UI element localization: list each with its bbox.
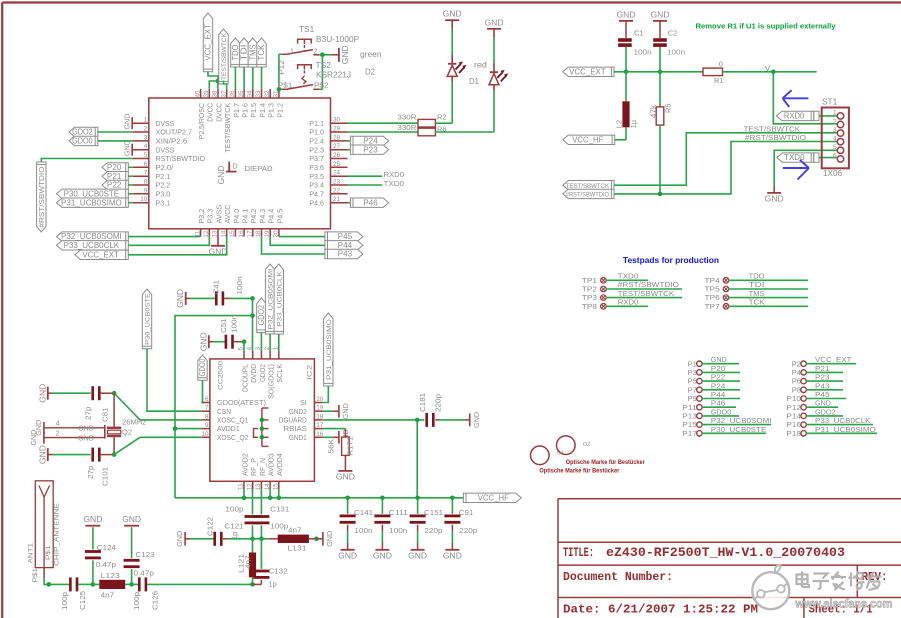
connector pin P3 net P20 xyxy=(688,364,740,377)
net flag VCC_EXT vertical above IC1 xyxy=(203,13,212,72)
ic IC1 MSP430 body xyxy=(149,98,331,229)
svg-text:4n7: 4n7 xyxy=(288,526,302,535)
svg-text:34: 34 xyxy=(247,90,254,98)
svg-text:www.elecfans.com: www.elecfans.com xyxy=(794,597,892,611)
capacitor C51 100n xyxy=(209,315,244,349)
svg-text:P18: P18 xyxy=(786,429,801,438)
wire P1.2 net from pin 31 xyxy=(277,54,286,89)
net flag TDO xyxy=(231,38,240,67)
wire pin19 to P44 xyxy=(270,237,325,246)
wire GDO2 to IC2 pin 3 xyxy=(260,333,262,351)
junction C51 DCOUPL xyxy=(242,339,247,344)
svg-text:P4.3: P4.3 xyxy=(258,209,267,224)
svg-text:40: 40 xyxy=(194,90,201,98)
wire ST1 pin 5 to GND xyxy=(774,150,837,185)
svg-text:P3.0: P3.0 xyxy=(156,189,171,198)
svg-text:CSN: CSN xyxy=(217,407,231,416)
net flag P32_UCB0SOMI at pin 11 xyxy=(57,232,129,241)
svg-text:GND1: GND1 xyxy=(289,433,307,442)
svg-text:330R: 330R xyxy=(397,112,417,121)
svg-text:16: 16 xyxy=(238,230,245,238)
svg-text:9: 9 xyxy=(144,187,148,194)
svg-text:P1.0: P1.0 xyxy=(309,128,324,137)
wire P32_UCB0SOMI to pin 2 xyxy=(269,334,271,351)
svg-text:AVCC: AVCC xyxy=(223,205,232,224)
ic IC2 pins top xyxy=(238,346,280,359)
testpad TP8 RXD0 xyxy=(582,298,648,311)
wire VCC_EXT to pin 14 AVCC xyxy=(128,237,226,255)
svg-text:RXD0: RXD0 xyxy=(384,170,405,179)
wire P1.0 pin29 to R6 xyxy=(348,131,419,133)
led D2 green xyxy=(360,50,467,82)
connector pin P12 net GND xyxy=(786,399,838,412)
svg-text:green: green xyxy=(360,50,382,59)
net flag P44 xyxy=(325,241,363,250)
wire P21 xyxy=(128,175,132,177)
net flag TDI xyxy=(239,38,248,67)
junction bus AVDD2 xyxy=(242,496,247,501)
svg-text:R5: R5 xyxy=(664,103,673,113)
svg-text:GND: GND xyxy=(815,399,831,408)
ground at GND2 xyxy=(323,403,350,419)
svg-text:P4.6: P4.6 xyxy=(309,198,324,207)
capacitor C101 27p xyxy=(48,448,114,486)
svg-text:C122: C122 xyxy=(206,517,215,536)
wire antenna feed xyxy=(32,567,70,584)
svg-text:15: 15 xyxy=(273,483,280,491)
net flag VCC_EXT at pin 14 xyxy=(75,250,128,259)
svg-text:100n: 100n xyxy=(667,48,685,57)
svg-text:XOSC_Q1: XOSC_Q1 xyxy=(217,416,248,425)
wire AVDD3 stub xyxy=(269,489,271,497)
junction bus C151 xyxy=(415,496,420,501)
net flag P31_UCB0SIMO vertical right xyxy=(324,313,333,386)
svg-text:P32_UCB0SOMI: P32_UCB0SOMI xyxy=(711,416,772,425)
svg-text:P17: P17 xyxy=(682,429,697,438)
svg-text:P4.4: P4.4 xyxy=(267,209,276,224)
svg-text:P44: P44 xyxy=(338,241,353,250)
title block frame xyxy=(558,499,901,618)
svg-text:P45: P45 xyxy=(815,390,830,399)
svg-text:P30_UCB0STE: P30_UCB0STE xyxy=(64,189,120,198)
svg-text:D: D xyxy=(233,164,238,171)
svg-text:GND: GND xyxy=(443,9,462,19)
svg-text:GND: GND xyxy=(472,411,481,427)
wire XOSC_Q2 xyxy=(114,437,201,454)
svg-text:P3.2: P3.2 xyxy=(197,209,206,224)
svg-text:V: V xyxy=(765,64,770,73)
testpad TP2 #RST/SBWTDIO xyxy=(582,280,682,293)
svg-text:P43: P43 xyxy=(815,381,830,390)
net flag P46 xyxy=(350,198,388,207)
svg-text:GND: GND xyxy=(373,550,392,560)
svg-text:P23: P23 xyxy=(815,373,830,382)
svg-text:GND: GND xyxy=(325,530,334,546)
junction C2 rail xyxy=(658,70,663,75)
wire GDO0 to pin 3 xyxy=(98,140,133,142)
ground below C91 xyxy=(443,550,462,561)
note text Optische Marke 2 xyxy=(539,467,620,474)
testpad TP3 TEST/SBWTCK xyxy=(582,289,682,302)
ground above C124 xyxy=(83,514,102,526)
title block TITLE text xyxy=(563,545,845,560)
svg-text:25: 25 xyxy=(333,161,341,168)
svg-text:TXD0: TXD0 xyxy=(618,272,639,281)
svg-text:P22: P22 xyxy=(107,181,122,190)
svg-text:P21: P21 xyxy=(107,172,122,181)
svg-text:B3U-1000P: B3U-1000P xyxy=(316,35,360,44)
svg-text:Optische Marke für Bestücker: Optische Marke für Bestücker xyxy=(566,459,646,466)
inductor L131 4n7 xyxy=(269,526,316,553)
svg-text:TS1: TS1 xyxy=(299,25,315,34)
svg-text:2: 2 xyxy=(833,118,837,125)
svg-text:P33_UCB0CLK: P33_UCB0CLK xyxy=(276,271,283,327)
ground at crystal case pin 2 xyxy=(29,429,94,445)
svg-text:VCC_HF: VCC_HF xyxy=(572,135,603,144)
wire VCC_HF to L2 xyxy=(615,139,626,141)
svg-text:AVDD2: AVDD2 xyxy=(240,453,249,476)
svg-text:RST/SBWTDIO: RST/SBWTDIO xyxy=(156,154,206,163)
inductor L123 4n7 xyxy=(93,571,132,600)
svg-text:8: 8 xyxy=(144,179,148,186)
svg-text:32: 32 xyxy=(264,90,271,98)
inductor L2 1u xyxy=(615,72,639,140)
svg-text:16: 16 xyxy=(316,431,324,438)
svg-text:12: 12 xyxy=(246,483,253,491)
svg-text:P3: P3 xyxy=(688,368,697,377)
svg-text:100n: 100n xyxy=(389,526,407,535)
wire P30_UCB0STE xyxy=(128,193,132,195)
svg-text:DCOUPL: DCOUPL xyxy=(240,364,249,392)
wire VCC_EXT rail xyxy=(614,71,703,73)
wire TS1 pin2 to GND xyxy=(320,54,332,56)
svg-text:VCC_EXT: VCC_EXT xyxy=(569,67,606,76)
net flag TEST/SBWTCK vertical above IC1 xyxy=(219,29,228,84)
svg-text:C132: C132 xyxy=(269,567,288,576)
svg-text:AVDD1: AVDD1 xyxy=(217,424,240,433)
connector pin P16 net P33_UCB0CLK xyxy=(786,416,873,429)
svg-text:TP8: TP8 xyxy=(582,302,597,311)
svg-text:XOUT/P2.7: XOUT/P2.7 xyxy=(156,128,192,137)
svg-text:33: 33 xyxy=(255,90,262,98)
svg-text:19: 19 xyxy=(316,405,324,412)
wire RST to flag xyxy=(41,159,132,163)
svg-text:GDO0(ATEST): GDO0(ATEST) xyxy=(217,398,266,407)
svg-text:P46: P46 xyxy=(363,198,378,207)
net flag RXD0 at ST1 xyxy=(776,111,819,120)
svg-text:P9: P9 xyxy=(688,394,697,403)
junction VCC_EXT xyxy=(216,79,221,84)
svg-text:RF_P: RF_P xyxy=(249,458,258,476)
svg-text:C121: C121 xyxy=(224,522,243,531)
svg-text:5: 5 xyxy=(833,144,837,151)
wire pin28 to P24 xyxy=(348,140,351,142)
svg-text:RBIAS: RBIAS xyxy=(284,424,308,433)
svg-text:VCC_HF: VCC_HF xyxy=(478,493,509,502)
wire TEST/SBWTCK to pin 37 xyxy=(224,81,227,89)
svg-text:P13: P13 xyxy=(682,412,697,421)
svg-text:P1.6: P1.6 xyxy=(241,103,250,118)
junction antenna line RF xyxy=(250,582,255,587)
svg-text:P24: P24 xyxy=(711,381,726,390)
net flag GDO0 at IC1 pin 3 xyxy=(69,136,98,145)
svg-text:37: 37 xyxy=(220,90,227,98)
title block Sheet xyxy=(809,603,873,617)
svg-text:GND: GND xyxy=(37,384,47,403)
ic IC1 pins bottom xyxy=(194,229,279,238)
ground at GND1 xyxy=(323,429,350,445)
testpad TP5 TDI xyxy=(705,280,809,293)
svg-text:RXD0: RXD0 xyxy=(784,112,805,121)
net flag GDO0 above IC2 pin 6 xyxy=(198,355,207,380)
wire RXD0 from pin 24 xyxy=(348,170,405,179)
svg-text:P24: P24 xyxy=(363,137,378,146)
junction C101 XOSC_Q2 xyxy=(112,452,117,457)
ic IC1 pins right xyxy=(331,117,348,204)
wire P1.1 pin30 to R2 xyxy=(348,122,419,124)
svg-text:100p: 100p xyxy=(60,592,69,610)
wire TMS to pin 34 xyxy=(252,67,254,89)
svg-text:ANT1: ANT1 xyxy=(28,543,35,564)
svg-text:P4: P4 xyxy=(792,368,801,377)
svg-text:220p: 220p xyxy=(434,394,443,412)
svg-text:39: 39 xyxy=(203,90,210,98)
svg-text:14: 14 xyxy=(264,483,271,491)
svg-text:XIN/P2.6: XIN/P2.6 xyxy=(156,137,188,146)
wire GDO0 to IC2 pin 6 xyxy=(201,380,202,402)
svg-text:5: 5 xyxy=(144,152,148,159)
ic IC2 pins right xyxy=(314,396,323,438)
svg-text:P12: P12 xyxy=(277,60,286,75)
svg-text:100n: 100n xyxy=(235,276,244,294)
svg-text:P1.5: P1.5 xyxy=(249,103,258,118)
svg-text:TEST/SBWTCK: TEST/SBWTCK xyxy=(221,33,228,80)
svg-text:TP3: TP3 xyxy=(582,293,597,302)
svg-text:P7: P7 xyxy=(688,385,697,394)
svg-text:0.47p: 0.47p xyxy=(96,560,116,569)
svg-text:AVDD3: AVDD3 xyxy=(267,453,276,476)
svg-text:P3.7: P3.7 xyxy=(309,154,324,163)
svg-text:GDO2: GDO2 xyxy=(257,305,266,326)
capacitor C121 100p xyxy=(224,505,260,539)
wire R1 to V node xyxy=(723,64,817,73)
wire C1 to VCC_EXT rail xyxy=(625,47,627,72)
net flag P30_UCB0STE vertical left xyxy=(142,289,151,349)
net flag #RST/SBWTDIO left xyxy=(563,189,614,198)
title block Date xyxy=(563,603,758,617)
connector ST1 1X06 xyxy=(822,98,849,179)
svg-text:P3.5: P3.5 xyxy=(309,172,324,181)
svg-text:GND: GND xyxy=(78,433,94,442)
svg-text:GND: GND xyxy=(408,550,427,560)
junction C1 rail xyxy=(624,70,629,75)
svg-text:22: 22 xyxy=(333,187,341,194)
svg-text:P20: P20 xyxy=(107,163,122,172)
svg-text:P21: P21 xyxy=(815,364,830,373)
svg-text:15: 15 xyxy=(229,230,236,238)
svg-text:26MHz: 26MHz xyxy=(122,418,146,427)
svg-text:Date: 6/21/2007 1:25:22 PM: Date: 6/21/2007 1:25:22 PM xyxy=(563,603,758,617)
junction bus C91 xyxy=(450,496,455,501)
svg-text:TDO: TDO xyxy=(749,272,765,281)
svg-text:8: 8 xyxy=(205,413,209,420)
svg-text:330R: 330R xyxy=(397,123,417,132)
title block Document Number xyxy=(563,570,673,584)
svg-text:13: 13 xyxy=(212,230,219,238)
svg-text:GND: GND xyxy=(37,445,47,464)
svg-text:P20: P20 xyxy=(711,364,726,373)
svg-text:6: 6 xyxy=(833,153,837,160)
svg-text:GND: GND xyxy=(175,530,184,546)
svg-text:AVSS: AVSS xyxy=(214,205,223,224)
svg-text:P31_UCB0SIMO: P31_UCB0SIMO xyxy=(61,198,122,207)
svg-text:3: 3 xyxy=(833,127,837,134)
wire RF node xyxy=(253,538,270,540)
svg-text:56K: 56K xyxy=(327,439,336,454)
svg-text:P30_UCB0STE: P30_UCB0STE xyxy=(711,425,767,434)
svg-text:TP6: TP6 xyxy=(705,293,720,302)
svg-text:30: 30 xyxy=(333,117,341,124)
svg-text:21: 21 xyxy=(333,196,341,203)
svg-text:C124: C124 xyxy=(97,543,116,552)
svg-text:P6: P6 xyxy=(792,377,801,386)
svg-text:DVSS: DVSS xyxy=(156,145,175,154)
ground below ST1 xyxy=(765,185,784,203)
ground at crystal case pin 4 xyxy=(34,419,94,435)
ground right of L131 xyxy=(316,530,334,546)
svg-text:TEST/SBWTCK: TEST/SBWTCK xyxy=(618,289,674,298)
svg-text:IC2: IC2 xyxy=(307,364,314,380)
ground below C151 xyxy=(408,550,427,561)
wire XOSC_Q1 xyxy=(114,393,201,420)
svg-text:35: 35 xyxy=(238,90,245,98)
svg-text:27p: 27p xyxy=(84,407,93,421)
wire P31_UCB0SIMO xyxy=(128,202,132,204)
svg-text:19: 19 xyxy=(264,230,271,238)
svg-text:C181: C181 xyxy=(418,393,427,412)
svg-text:P$1: P$1 xyxy=(278,81,293,90)
wire VCC_HF bus xyxy=(175,497,463,499)
svg-text:P4.7: P4.7 xyxy=(309,189,324,198)
svg-text:14: 14 xyxy=(220,230,227,238)
svg-text:7: 7 xyxy=(205,405,209,412)
svg-text:O2: O2 xyxy=(583,442,590,448)
wire DGUARD to C181 xyxy=(323,419,417,421)
net flag P22 at pin 8 xyxy=(102,180,128,189)
wire P33_UCB0CLK to pin 12 xyxy=(128,237,209,246)
svg-text:P8: P8 xyxy=(792,385,801,394)
svg-text:P2: P2 xyxy=(792,359,801,368)
net flag P20 at pin 6 xyxy=(102,163,128,172)
svg-text:red: red xyxy=(474,60,487,69)
svg-text:47k: 47k xyxy=(649,105,658,119)
testpad TP7 TCK xyxy=(705,298,809,311)
wire DCOUPL xyxy=(243,342,245,351)
capacitor C181 220p xyxy=(417,393,470,427)
svg-text:27: 27 xyxy=(333,143,341,150)
connector pin P17 net P30_UCB0STE xyxy=(682,425,766,438)
svg-text:P2.4: P2.4 xyxy=(309,137,324,146)
svg-text:TP7: TP7 xyxy=(705,302,720,311)
ground above C123 xyxy=(122,514,141,526)
capacitor C126 100p xyxy=(132,577,253,610)
svg-text:2: 2 xyxy=(314,46,318,55)
svg-text:P15: P15 xyxy=(682,420,697,429)
svg-text:P2.1: P2.1 xyxy=(156,172,171,181)
svg-text:P22: P22 xyxy=(711,373,726,382)
svg-text:P1.4: P1.4 xyxy=(258,103,267,118)
net flag TEST/SBWTCK left xyxy=(563,181,614,190)
svg-text:C2: C2 xyxy=(668,29,678,38)
svg-text:P3.3: P3.3 xyxy=(206,209,215,224)
svg-text:D2: D2 xyxy=(365,68,375,77)
net flag P21 at pin 7 xyxy=(102,172,128,181)
svg-text:10: 10 xyxy=(201,431,209,438)
svg-text:GDO0: GDO0 xyxy=(198,358,207,376)
svg-text:RXD0: RXD0 xyxy=(618,298,639,307)
svg-text:P4.0: P4.0 xyxy=(232,209,241,224)
svg-text:27p: 27p xyxy=(86,466,95,480)
svg-text:SCLK: SCLK xyxy=(275,364,284,383)
net flag P45 xyxy=(325,232,363,241)
svg-text:4: 4 xyxy=(56,420,60,427)
note text Optische Marke 1 xyxy=(566,459,646,466)
svg-text:P33_UCB0CLK: P33_UCB0CLK xyxy=(815,416,871,425)
testpad TP1 TXD0 xyxy=(582,272,648,285)
wire TCK to pin 33 xyxy=(261,67,263,89)
junction RF_N node xyxy=(259,537,264,542)
junction antenna feed xyxy=(47,582,52,587)
svg-text:TITLE:: TITLE: xyxy=(563,545,594,560)
svg-text:18: 18 xyxy=(316,413,324,420)
svg-text:GDO2: GDO2 xyxy=(815,407,836,416)
svg-text:4: 4 xyxy=(833,136,837,143)
wire DGUARD down to VCC_HF bus xyxy=(416,420,418,498)
svg-text:C1: C1 xyxy=(634,29,644,38)
wire DVDD vertical xyxy=(252,298,254,351)
ground above C1 xyxy=(617,9,636,38)
wire SI from P31_UCB0SIMO xyxy=(323,386,328,403)
net flag TXD0 at ST1 xyxy=(777,153,819,162)
svg-text:1: 1 xyxy=(833,110,837,117)
ground above D2 xyxy=(443,9,462,29)
wire R6 to LED D1 xyxy=(435,91,494,133)
svg-text:20: 20 xyxy=(316,396,324,403)
capacitor C122 1p xyxy=(185,517,252,546)
ic IC2 pins left xyxy=(201,396,210,438)
svg-text:L123: L123 xyxy=(101,571,120,580)
svg-text:1p: 1p xyxy=(269,580,277,589)
wire pin20 to P45 xyxy=(279,236,325,238)
net flag P23 xyxy=(350,145,388,154)
resistor R2 330R xyxy=(397,112,446,127)
junction bus AVDD4 xyxy=(277,496,282,501)
wire C2 to rail xyxy=(659,47,661,72)
connector pin P2 net VCC_EXT xyxy=(792,355,856,368)
svg-text:DVCC: DVCC xyxy=(214,103,223,122)
net flag TCK xyxy=(257,38,266,67)
crystal Q2 26MHz xyxy=(44,393,146,454)
connector pin P15 net P32_UCB0SOMI xyxy=(682,416,771,429)
svg-text:KSR221J: KSR221J xyxy=(316,71,351,80)
svg-text:4n7: 4n7 xyxy=(101,591,115,600)
junction bus AVDD3 xyxy=(268,496,273,501)
svg-text:TCK: TCK xyxy=(749,298,765,307)
switch TS1 B3U-1000P xyxy=(282,25,360,55)
wire AVDD4 stub xyxy=(278,489,280,497)
svg-text:GDO0: GDO0 xyxy=(72,137,93,146)
antenna ANT1 chip antenna xyxy=(28,481,61,568)
